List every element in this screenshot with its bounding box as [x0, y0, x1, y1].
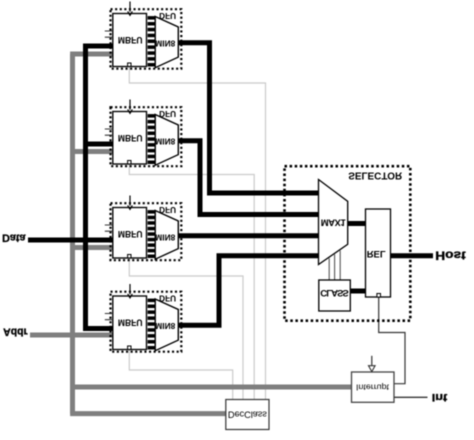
input ticks block 1 — [105, 31, 113, 37]
output port square block 3 — [128, 255, 131, 258]
svg-text:REL: REL — [367, 248, 386, 259]
svg-text:MIN8: MIN8 — [155, 38, 175, 48]
wire black branch to block 4 — [83, 326, 113, 331]
REL bottom port square — [377, 294, 381, 298]
wire Addr gray bus vertical — [70, 54, 75, 414]
MIN8 mux trapezoid block 1 — [155, 17, 178, 68]
MIN8 mux trapezoid block 3 — [155, 211, 178, 260]
svg-text:DFU: DFU — [159, 205, 176, 214]
svg-text:MBFU: MBFU — [118, 228, 143, 239]
DFU block 2 dotted border — [111, 107, 182, 166]
svg-text:CLASS: CLASS — [320, 287, 349, 298]
wire gray branch to block 1 — [70, 52, 113, 57]
wire feedback from DFU block 2 to DecClass — [129, 163, 254, 400]
wire Addr input to block 4 — [30, 333, 113, 338]
bus stripes block 1 — [148, 16, 155, 20]
wire block 4 output to MAX1 input 4 — [178, 256, 319, 325]
svg-text:Addr: Addr — [3, 326, 28, 338]
svg-text:MBFU: MBFU — [118, 132, 143, 143]
MBFU register file block 3 — [113, 208, 147, 259]
svg-text:DFU: DFU — [159, 294, 176, 303]
svg-text:SELECTOR: SELECTOR — [348, 170, 402, 181]
svg-text:MBFU: MBFU — [118, 34, 143, 45]
bus stripes block 2 — [148, 114, 155, 118]
wire CLASS to REL — [350, 289, 365, 294]
CLASS box — [319, 280, 351, 311]
wire feedback from DFU block 3 to DecClass — [129, 257, 243, 400]
SELECTOR dotted border — [285, 166, 411, 321]
svg-text:MIN8: MIN8 — [155, 232, 175, 242]
clock arrow into block 2 — [129, 100, 131, 110]
wire gray to DecClass — [70, 411, 226, 416]
wires MAX1 to CLASS — [329, 251, 340, 280]
wire Host output — [391, 253, 434, 258]
wire gray branch to block 3 — [73, 245, 114, 250]
MBFU register file block 2 — [113, 112, 147, 165]
input ticks block 4 — [105, 314, 113, 320]
wire black branch to block 2 — [86, 142, 114, 147]
MIN8 mux trapezoid block 2 — [155, 115, 178, 166]
wire block 3 output to MAX1 input 3 — [178, 233, 319, 238]
DFU block 3 dotted border — [111, 203, 182, 260]
output port square block 4 — [128, 346, 131, 349]
wire Data black bus vertical — [83, 44, 88, 331]
clock arrow into block 4 — [129, 284, 131, 294]
svg-text:Int: Int — [432, 391, 448, 403]
wire feedback from DFU block 1 to DecClass — [129, 66, 265, 401]
bus stripes block 3 — [148, 210, 155, 214]
comparator MAX1 — [319, 180, 348, 265]
clock arrow into block 3 — [129, 196, 131, 206]
MBFU register file block 4 — [113, 296, 147, 350]
wire gray branch to block 2 — [73, 149, 114, 154]
DFU block 1 dotted border — [111, 9, 182, 68]
output port square block 1 — [128, 63, 131, 66]
wire gray to Interrupt — [73, 385, 352, 390]
clock arrow into block 1 — [129, 2, 131, 12]
arrow into Interrupt — [371, 356, 373, 366]
bus stripes block 4 — [148, 299, 155, 303]
output port square block 2 — [128, 161, 131, 164]
wire block 2 output to MAX1 input 2 — [178, 141, 319, 215]
svg-text:Interrupt: Interrupt — [356, 382, 390, 392]
REL output register — [366, 209, 391, 297]
svg-text:MBFU: MBFU — [118, 317, 143, 328]
input ticks block 3 — [105, 225, 113, 231]
svg-text:MIN8: MIN8 — [155, 136, 175, 146]
MBFU register file block 1 — [113, 14, 147, 67]
wire black branch to block 1 — [83, 44, 113, 49]
svg-text:Host: Host — [435, 248, 466, 260]
wire feedback from DFU block 4 to DecClass — [129, 349, 232, 401]
wire block 1 output to MAX1 input 1 — [178, 43, 319, 193]
wire Data input to block 3 — [28, 238, 113, 243]
MIN8 mux trapezoid block 4 — [155, 299, 178, 351]
DecClass box — [226, 400, 269, 430]
svg-text:MIN8: MIN8 — [155, 321, 175, 331]
input ticks block 2 — [105, 129, 113, 135]
svg-text:DFU: DFU — [159, 109, 176, 118]
svg-text:DFU: DFU — [159, 11, 176, 20]
svg-text:DecClass: DecClass — [228, 409, 267, 419]
wire MAX1 to REL — [348, 221, 366, 226]
wire Int output — [394, 396, 428, 398]
wire REL feedback to Interrupt — [379, 297, 405, 384]
Interrupt box — [352, 372, 395, 402]
DFU block 4 dotted border — [111, 292, 182, 352]
svg-text:MAX1: MAX1 — [321, 217, 347, 228]
svg-text:Data: Data — [2, 232, 26, 244]
